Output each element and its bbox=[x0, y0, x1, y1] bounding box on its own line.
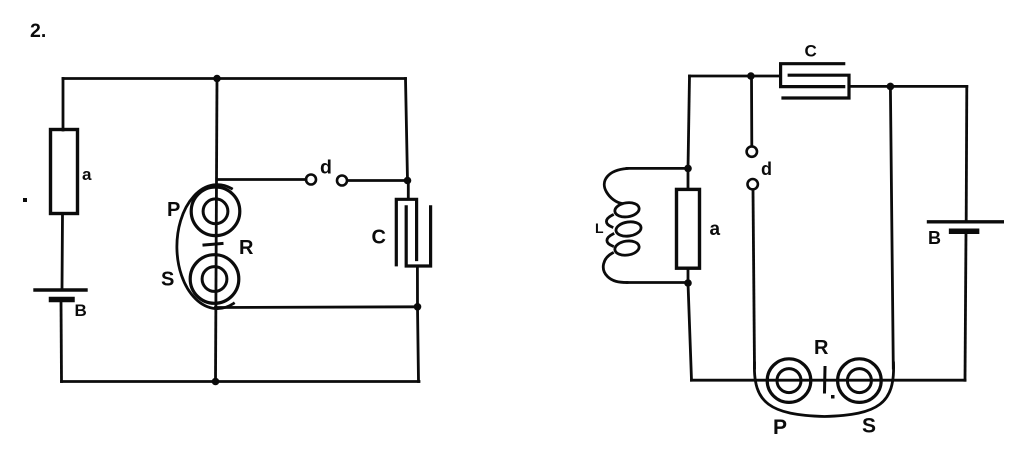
coil S outer circle bbox=[190, 255, 239, 304]
coil P inner right bbox=[777, 369, 801, 393]
contact tick R left bbox=[204, 244, 222, 246]
node mid-right junction bbox=[414, 303, 422, 311]
switch d contact circle 2 bbox=[337, 176, 347, 186]
svg-text:R: R bbox=[814, 337, 829, 359]
svg-text:S: S bbox=[161, 269, 174, 291]
coil S inner right bbox=[847, 369, 871, 393]
battery B short plate right bbox=[952, 229, 977, 235]
svg-text:L: L bbox=[595, 220, 604, 236]
wire switch lower to coil P bbox=[753, 190, 755, 368]
wire from C node down to S bbox=[890, 86, 893, 368]
wire into capacitor C top bbox=[407, 181, 410, 198]
capacitor C right plate (bottom) bbox=[406, 207, 430, 266]
coil S outer right bbox=[838, 359, 882, 403]
wire mid horizontal bbox=[216, 305, 418, 309]
svg-text:a: a bbox=[82, 165, 92, 184]
wire L bottom bbox=[627, 281, 688, 284]
node bottom junction bbox=[212, 378, 220, 386]
svg-text:C: C bbox=[805, 42, 817, 61]
coil S inner circle bbox=[202, 267, 227, 292]
node L-a bottom junction bbox=[684, 279, 692, 287]
svg-text:S: S bbox=[862, 415, 876, 438]
wire resistor to bottom junction bbox=[687, 268, 690, 283]
capacitor C left plate (top) bbox=[396, 199, 416, 264]
resistor a right circuit bbox=[677, 189, 700, 268]
inductor L loop 3 bbox=[614, 239, 640, 256]
svg-text:d: d bbox=[761, 159, 772, 179]
wire left-top horizontal bbox=[63, 77, 406, 80]
wire switch upper stub bbox=[750, 76, 753, 146]
wire top-right horizontal bbox=[849, 85, 967, 88]
wire resistor to battery bbox=[61, 214, 64, 291]
svg-text:2.: 2. bbox=[30, 20, 46, 42]
node top-left of C bbox=[747, 72, 755, 80]
node switch junction bbox=[404, 177, 412, 185]
svg-text:P: P bbox=[167, 199, 180, 221]
wire right vertical lower bbox=[418, 307, 419, 382]
node right of C bbox=[887, 83, 895, 91]
svg-text:a: a bbox=[710, 219, 721, 240]
wire battery to bottom bbox=[60, 300, 63, 382]
envelope arc under P S bbox=[754, 363, 893, 417]
capacitor C plate A (left) bbox=[781, 64, 844, 87]
inductor L loop 1 bbox=[614, 201, 640, 218]
node L-a top junction bbox=[684, 165, 692, 173]
wire top-left horizontal bbox=[690, 75, 781, 78]
wire switch branch left bbox=[218, 178, 306, 181]
switch d contact circle upper bbox=[747, 146, 757, 156]
envelope arc around P S bbox=[177, 185, 234, 309]
speck mark bbox=[23, 198, 27, 202]
inductor L loop 2 bbox=[615, 220, 642, 237]
coil P outer circle bbox=[191, 187, 240, 236]
wire junction to resistor a bbox=[687, 168, 690, 189]
wire capacitor bottom bbox=[416, 266, 419, 307]
wire right corner vertical to battery bbox=[965, 86, 968, 220]
battery B long plate right bbox=[929, 220, 1003, 223]
svg-text:B: B bbox=[75, 301, 87, 320]
svg-text:R: R bbox=[239, 237, 254, 259]
wire switch to right vertical bbox=[348, 179, 408, 182]
svg-text:C: C bbox=[372, 227, 386, 249]
wire left vertical upper bbox=[62, 79, 65, 131]
battery B short plate bbox=[52, 297, 73, 303]
wire bottom horizontal right circuit bbox=[692, 379, 966, 382]
coil P outer right bbox=[767, 359, 811, 403]
coil P inner circle bbox=[203, 199, 228, 224]
wire bottom horizontal bbox=[62, 380, 420, 383]
svg-text:P: P bbox=[773, 416, 787, 439]
wire right vertical upper bbox=[406, 79, 408, 181]
resistor a bbox=[51, 130, 78, 214]
inductor L outer scallops bbox=[603, 169, 627, 283]
wire junction down to bottom wire bbox=[688, 283, 692, 380]
capacitor C plate B (right) bbox=[783, 75, 849, 98]
speck below tick bbox=[831, 395, 835, 399]
svg-text:d: d bbox=[320, 157, 332, 179]
wire L top bbox=[627, 167, 688, 170]
node top junction bbox=[213, 75, 221, 83]
wire battery to bottom right bbox=[965, 231, 966, 380]
switch d contact circle lower bbox=[748, 179, 758, 189]
battery B long plate bbox=[35, 288, 86, 291]
contact tick R right bbox=[823, 368, 827, 393]
wire middle vertical bbox=[216, 79, 218, 382]
svg-text:B: B bbox=[928, 228, 941, 248]
wire main vertical upper bbox=[688, 76, 690, 168]
switch d contact circle 1 bbox=[306, 175, 316, 185]
